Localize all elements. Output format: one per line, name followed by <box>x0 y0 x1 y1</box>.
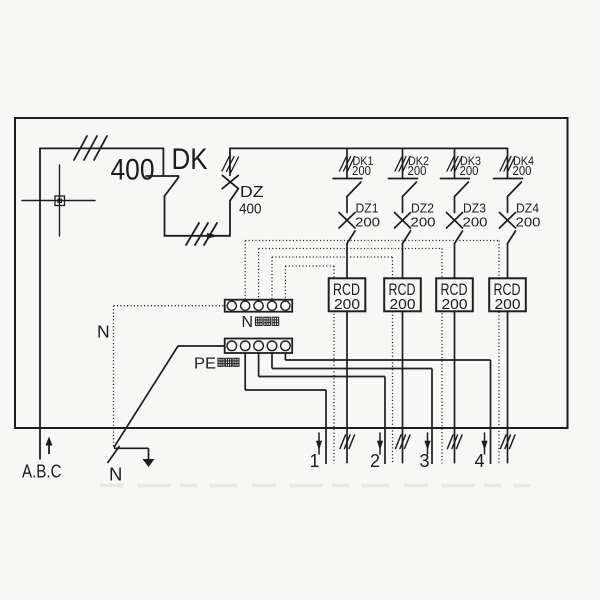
svg-text:DZ3: DZ3 <box>463 200 486 215</box>
svg-text:DZ4: DZ4 <box>516 200 539 215</box>
svg-text:4: 4 <box>475 451 485 471</box>
svg-text:200: 200 <box>460 164 479 178</box>
svg-text:200: 200 <box>352 164 371 178</box>
svg-text:200: 200 <box>516 214 541 229</box>
svg-text:200: 200 <box>513 164 532 178</box>
svg-text:200: 200 <box>463 214 488 229</box>
svg-text:200: 200 <box>411 214 436 229</box>
svg-text:200: 200 <box>408 164 427 178</box>
svg-text:3: 3 <box>420 451 430 471</box>
svg-text:DZ1: DZ1 <box>356 200 379 215</box>
svg-text:1: 1 <box>310 451 320 471</box>
svg-text:2: 2 <box>370 451 380 471</box>
svg-text:DZ2: DZ2 <box>411 200 434 215</box>
svg-text:200: 200 <box>355 214 380 229</box>
